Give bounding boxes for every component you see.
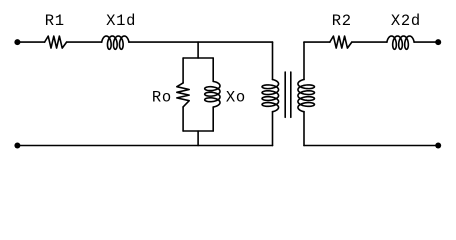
wire: bottom rail secondary	[304, 145, 436, 147]
wire: R2 to X2d	[352, 41, 387, 43]
resistor R2	[330, 36, 352, 48]
transformer core line 2	[290, 72, 292, 117]
wire: X1d to transformer primary (top rail)	[129, 41, 273, 43]
wire: magnetizing branch stub to bottom rail	[197, 131, 199, 146]
resistor Ro	[177, 83, 189, 107]
svg-text:X1d: X1d	[106, 12, 136, 30]
wire: magnetizing branch top bar	[183, 57, 213, 59]
terminal node: secondary output top	[435, 39, 441, 45]
svg-text:Xo: Xo	[226, 89, 246, 107]
wire: Xo top lead	[212, 58, 214, 81]
wire: Xo bottom lead	[212, 107, 214, 131]
inductor Xo	[205, 81, 220, 107]
wire: primary winding down to bottom rail	[272, 112, 274, 146]
wire: Ro bottom lead	[182, 107, 184, 131]
wire: magnetizing branch bottom bar	[183, 130, 213, 132]
inductor X2d	[387, 36, 414, 49]
wire: junction stub to magnetizing branch	[197, 42, 199, 58]
wire: input dot to R1	[20, 41, 45, 43]
terminal node: primary input bottom	[14, 143, 20, 149]
wire: R1 to X1d	[67, 41, 102, 43]
svg-text:R2: R2	[332, 12, 352, 30]
svg-text:R1: R1	[45, 12, 65, 30]
wire: top rail corner down to primary winding	[272, 42, 274, 79]
terminal node: secondary output bottom	[435, 143, 441, 149]
transformer core line 1	[284, 72, 286, 117]
wire: secondary top corner down to winding	[303, 42, 305, 79]
svg-text:Ro: Ro	[152, 89, 172, 107]
transformer secondary winding	[298, 80, 315, 112]
inductor X1d	[102, 36, 129, 49]
wire: Ro top lead	[182, 58, 184, 83]
wire: secondary winding down to bottom rail	[303, 112, 305, 146]
resistor R1	[45, 36, 67, 48]
terminal node: primary input top	[14, 39, 20, 45]
wire: X2d to output dot	[414, 41, 437, 43]
svg-text:X2d: X2d	[391, 12, 421, 30]
wire: secondary corner to R2	[304, 41, 330, 43]
wire: bottom rail primary	[20, 145, 273, 147]
transformer primary winding	[262, 80, 279, 112]
